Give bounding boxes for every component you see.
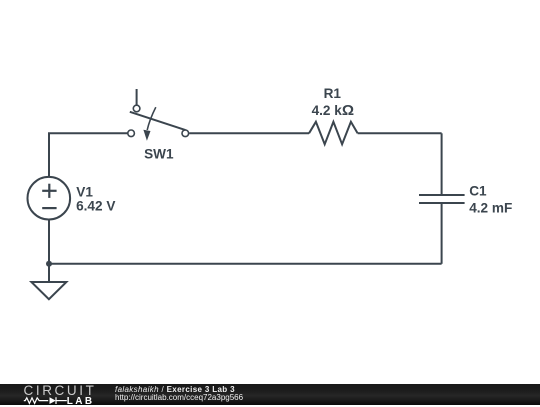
svg-text:SW1: SW1 — [144, 146, 174, 161]
svg-text:R1: R1 — [324, 86, 342, 101]
svg-text:4.2 kΩ: 4.2 kΩ — [312, 102, 354, 119]
svg-text:4.2 mF: 4.2 mF — [469, 201, 512, 216]
svg-text:V1: V1 — [76, 184, 93, 199]
svg-text:C1: C1 — [469, 184, 487, 199]
svg-text:6.42 V: 6.42 V — [76, 199, 115, 214]
